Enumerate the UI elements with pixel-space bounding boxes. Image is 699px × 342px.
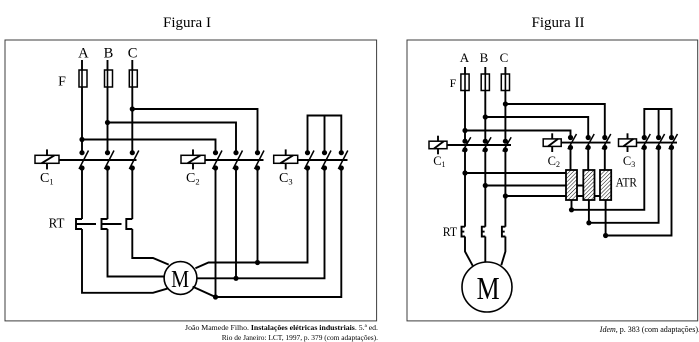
contact C1 pole B bbox=[105, 150, 115, 171]
svg-text:RT: RT bbox=[443, 225, 458, 239]
contact C3 right pole bbox=[669, 134, 678, 150]
svg-text:B: B bbox=[480, 50, 489, 65]
relay RT bar B-C bbox=[101, 223, 122, 225]
contact C1 pole C bbox=[129, 150, 139, 171]
svg-text:A: A bbox=[460, 50, 470, 65]
wire branch from A to C2 left pole bbox=[465, 131, 571, 138]
wire phase A upper bbox=[464, 67, 466, 141]
node junction C2 middle pole bottom bbox=[233, 276, 238, 281]
node junction B branch bbox=[483, 114, 488, 119]
wire ATR winding 1 bottom to C3 left pole bbox=[572, 148, 645, 210]
wire ATR winding 2 bottom to C3 middle pole bbox=[589, 148, 659, 223]
node junction tap1 on pole A bbox=[462, 170, 467, 175]
wire phase A upper bbox=[81, 60, 83, 153]
contact C1 pole C bbox=[503, 137, 511, 152]
relay RT bar A-B bbox=[76, 223, 97, 225]
wire phase C upper bbox=[504, 67, 506, 141]
wire phase B upper bbox=[107, 60, 109, 153]
wire C1 pole A down to RT bbox=[464, 150, 466, 227]
node junction tap3 on pole C bbox=[503, 193, 508, 198]
wire RT C to motor bbox=[501, 237, 505, 266]
wire C2 linkage bbox=[205, 159, 264, 161]
svg-text:João Mamede Filho. Instalações: João Mamede Filho. Instalações elétricas… bbox=[185, 323, 378, 332]
node junction C branch bbox=[130, 106, 135, 111]
wire tap1 to ATR winding 1 bbox=[465, 172, 566, 174]
wire phase C upper bbox=[131, 60, 133, 153]
svg-text:RT: RT bbox=[49, 216, 66, 231]
contact C2 middle pole bbox=[586, 134, 595, 170]
node corner ATR winding 1 bottom bbox=[569, 207, 574, 212]
contact C2 right pole bbox=[602, 134, 611, 170]
wire C1 pole C to RT bbox=[131, 168, 133, 219]
wire C1 pole B down to RT bbox=[484, 150, 486, 227]
fuse F phase A bbox=[79, 70, 87, 87]
contact C3 middle pole bbox=[656, 134, 665, 150]
autotransformer ATR winding 3 bbox=[600, 170, 611, 200]
contact C2 right pole bbox=[255, 150, 265, 262]
relay RT heater phase B bbox=[102, 219, 108, 229]
wire RT A to motor bbox=[82, 229, 169, 293]
wire C2 linkage bbox=[561, 142, 610, 144]
fuse F phase C bbox=[501, 74, 509, 91]
wire tap3 to ATR winding 3 bbox=[505, 195, 600, 197]
wire RT B to motor bbox=[484, 237, 486, 263]
svg-text:M: M bbox=[477, 270, 500, 306]
svg-text:A: A bbox=[78, 46, 89, 62]
wire motor to C2 middle and C3 middle bbox=[197, 168, 325, 278]
wire motor to C2 left and C3 right bbox=[193, 168, 342, 297]
svg-text:C1: C1 bbox=[433, 154, 445, 169]
contactor C2 coil bbox=[181, 149, 205, 169]
svg-text:C2: C2 bbox=[548, 154, 560, 169]
wire branch from C to C2 right pole bbox=[505, 104, 604, 138]
svg-text:Figura I: Figura I bbox=[163, 15, 211, 31]
svg-text:C3: C3 bbox=[623, 154, 635, 169]
wire RT B to motor bbox=[108, 229, 165, 277]
wire C1 pole C down to RT bbox=[504, 150, 506, 227]
contact C1 pole A bbox=[79, 150, 89, 171]
contactor C2 coil bbox=[543, 133, 561, 152]
wire C3 linkage bbox=[637, 142, 678, 144]
fuse F phase B bbox=[481, 74, 489, 91]
node junction C branch bbox=[503, 101, 508, 106]
relay RT heater phase A bbox=[76, 219, 82, 229]
fuse F phase C bbox=[129, 70, 137, 87]
wire C1 linkage bbox=[59, 159, 137, 161]
svg-text:C: C bbox=[500, 50, 509, 65]
wire C3 star bridge bbox=[308, 116, 342, 153]
wire branch from A to C2 left pole bbox=[82, 140, 216, 153]
autotransformer ATR winding 2 bbox=[583, 170, 594, 200]
wire C3 star bridge bbox=[644, 109, 671, 138]
svg-text:C2: C2 bbox=[186, 171, 200, 187]
contact C3 right pole bbox=[338, 150, 348, 171]
relay RT heater phase C bbox=[126, 219, 132, 229]
relay RT heater phase A bbox=[462, 227, 466, 237]
node corner ATR winding 3 bottom bbox=[603, 233, 608, 238]
svg-text:Idem, p. 383 (com adaptações).: Idem, p. 383 (com adaptações). bbox=[599, 325, 699, 334]
svg-text:Figura II: Figura II bbox=[532, 15, 585, 31]
contact C3 middle pole bbox=[322, 150, 332, 171]
contact C2 middle pole bbox=[233, 150, 243, 278]
wire motor to C2 right and C3 left bbox=[195, 168, 307, 268]
motor M Figura II bbox=[462, 262, 512, 312]
contact C1 pole A bbox=[462, 137, 470, 152]
contact C3 left pole bbox=[305, 150, 315, 171]
motor M Figura I bbox=[164, 262, 197, 295]
contactor C3 coil bbox=[619, 133, 637, 152]
svg-text:F: F bbox=[58, 75, 66, 90]
fuse F phase A bbox=[461, 74, 469, 91]
wire ATR winding 3 bottom to C3 right pole bbox=[606, 148, 672, 236]
wire C1 linkage bbox=[447, 144, 511, 146]
autotransformer ATR winding 1 bbox=[566, 170, 577, 200]
fuse F phase B bbox=[105, 70, 113, 87]
node junction B branch bbox=[105, 120, 110, 125]
contactor C1 coil bbox=[35, 149, 59, 169]
wire tap2 to ATR winding 2 bbox=[485, 185, 583, 187]
contactor C3 coil bbox=[274, 149, 298, 169]
node junction C2 left pole bottom bbox=[213, 294, 218, 299]
wire phase B upper bbox=[484, 67, 486, 141]
wire RT A to motor bbox=[465, 237, 473, 266]
svg-text:Rio de Janeiro: LCT, 1997, p.: Rio de Janeiro: LCT, 1997, p. 379 (com a… bbox=[222, 333, 378, 342]
contact C1 pole B bbox=[483, 137, 491, 152]
svg-text:C3: C3 bbox=[279, 171, 293, 187]
wire C3 linkage bbox=[298, 159, 348, 161]
svg-text:F: F bbox=[450, 76, 457, 90]
svg-text:ATR: ATR bbox=[616, 174, 638, 189]
svg-text:C1: C1 bbox=[40, 171, 54, 187]
contactor C1 coil bbox=[429, 136, 447, 155]
svg-text:B: B bbox=[104, 46, 114, 62]
node junction C2 right pole bottom bbox=[255, 260, 260, 265]
svg-text:M: M bbox=[171, 266, 189, 293]
node corner ATR winding 2 bottom bbox=[586, 220, 591, 225]
wire branch from C to C2 right pole bbox=[132, 109, 257, 153]
node junction A branch bbox=[462, 128, 467, 133]
svg-text:C: C bbox=[128, 46, 138, 62]
wire branch from B to C2 middle pole bbox=[108, 123, 237, 153]
relay RT heater phase B bbox=[482, 227, 486, 237]
contact C3 left pole bbox=[642, 134, 651, 150]
wire C1 pole B to RT bbox=[107, 168, 109, 219]
contact C2 left pole bbox=[213, 150, 223, 297]
relay RT heater phase C bbox=[502, 227, 506, 237]
wire RT C to motor bbox=[132, 229, 168, 265]
wire branch from B to C2 middle pole bbox=[485, 117, 588, 138]
node junction tap2 on pole B bbox=[483, 183, 488, 188]
node junction A branch bbox=[79, 137, 84, 142]
wire C1 pole A to RT bbox=[81, 168, 83, 219]
contact C2 left pole bbox=[568, 134, 577, 170]
